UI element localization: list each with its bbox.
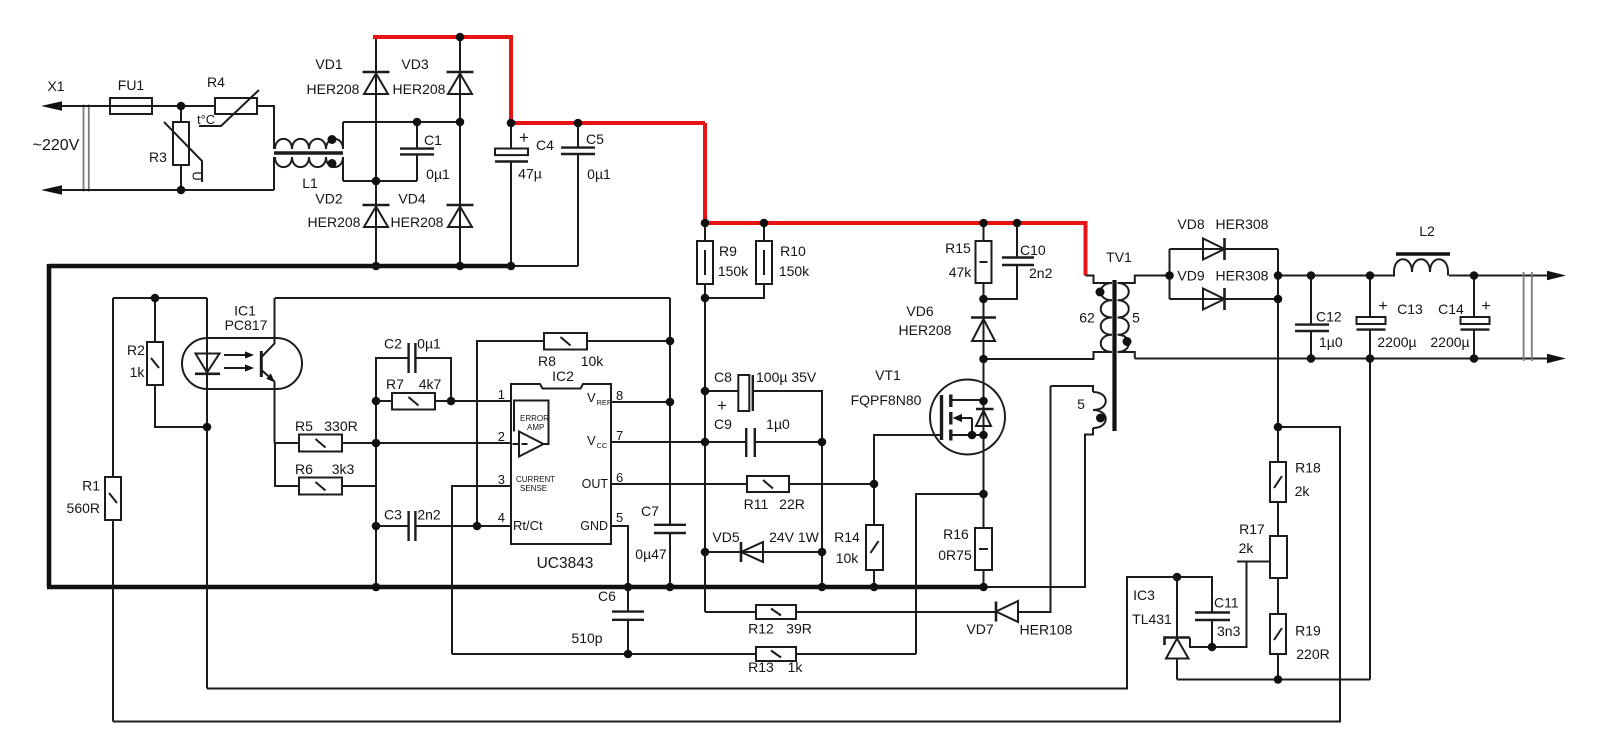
svg-text:VD5: VD5 <box>712 529 739 545</box>
capacitor C10 2n2 <box>984 223 1053 299</box>
svg-text:C2: C2 <box>384 336 402 352</box>
svg-text:C6: C6 <box>598 588 616 604</box>
svg-text:1: 1 <box>498 387 505 402</box>
svg-text:10k: 10k <box>581 353 605 369</box>
svg-text:R13: R13 <box>748 659 774 675</box>
capacitor C3 2n2 <box>376 507 511 542</box>
resistor R13 1k <box>748 647 803 675</box>
svg-text:2: 2 <box>498 429 505 444</box>
diode VD8 HER308 <box>1170 216 1279 260</box>
wire pin3 current sense <box>452 486 511 654</box>
diode VD6 HER208 <box>899 299 996 359</box>
svg-text:1µ0: 1µ0 <box>766 416 790 432</box>
svg-text:R8: R8 <box>538 353 556 369</box>
wire pin5 GND <box>611 526 628 587</box>
wire opto cathode to TL431 cathode <box>207 577 1177 689</box>
svg-text:UC3843: UC3843 <box>537 555 594 572</box>
svg-text:2200µ: 2200µ <box>1377 334 1416 350</box>
optocoupler IC1 PC817 body <box>182 303 302 390</box>
svg-text:1µ0: 1µ0 <box>1319 334 1343 350</box>
svg-text:V: V <box>587 390 596 405</box>
svg-text:VD9: VD9 <box>1177 268 1204 284</box>
wire primary ground bus bottom <box>47 585 984 590</box>
capacitor C5 <box>561 123 611 266</box>
svg-text:2n2: 2n2 <box>417 507 441 523</box>
svg-text:IC3: IC3 <box>1133 587 1155 603</box>
diode VD3 HER208 <box>393 56 474 97</box>
svg-text:VD4: VD4 <box>398 191 425 207</box>
TV1 aux winding 5 <box>984 386 1106 587</box>
connector X1 double lines <box>84 105 89 192</box>
svg-text:VD1: VD1 <box>315 56 342 72</box>
svg-text:HER208: HER208 <box>899 322 952 338</box>
thermistor R4 <box>197 74 259 127</box>
svg-text:FU1: FU1 <box>118 77 145 93</box>
wire R4 to L1 <box>257 106 274 149</box>
svg-text:1k: 1k <box>130 364 146 380</box>
svg-text:AMP: AMP <box>527 423 544 432</box>
diode VD2 HER208 <box>308 191 390 231</box>
svg-text:~220V: ~220V <box>33 137 80 154</box>
wire primary ground bus left vertical <box>47 264 52 587</box>
svg-text:R10: R10 <box>780 243 806 259</box>
svg-text:7: 7 <box>616 428 623 443</box>
resistor R8 10k <box>477 333 670 526</box>
svg-text:10k: 10k <box>836 550 860 566</box>
resistor R18 2k <box>1270 460 1321 503</box>
LED of IC1 <box>195 354 220 374</box>
svg-text:R16: R16 <box>943 526 969 542</box>
wire secondary to rectifier <box>1169 249 1171 299</box>
resistor R12 39R <box>705 605 996 637</box>
capacitor C7 0u47 <box>635 503 686 587</box>
resistor R16 0R75 <box>938 494 992 587</box>
svg-text:L2: L2 <box>1419 223 1435 239</box>
wire primary ground bus top <box>49 264 578 269</box>
svg-text:R1: R1 <box>82 478 100 494</box>
resistor R6 3k3 <box>275 443 376 495</box>
wire current sense row <box>452 653 916 655</box>
wire R17 tap to TL431 ref <box>1190 562 1270 648</box>
wire TL431 anode row <box>1177 679 1370 681</box>
svg-text:3: 3 <box>498 472 505 487</box>
svg-text:CURRENT: CURRENT <box>516 475 555 484</box>
svg-text:2n2: 2n2 <box>1029 265 1053 281</box>
svg-text:HER208: HER208 <box>307 81 360 97</box>
node X1 input arrows <box>33 78 80 195</box>
svg-text:330R: 330R <box>324 418 357 434</box>
diode VD4 HER208 <box>391 191 474 231</box>
wire R5 to pin2 <box>342 442 511 444</box>
TV1 secondary winding 5 <box>1118 276 1170 359</box>
svg-text:C9: C9 <box>714 416 732 432</box>
svg-text:0µ1: 0µ1 <box>417 336 441 352</box>
svg-text:C12: C12 <box>1316 309 1342 325</box>
fuse FU1 <box>110 77 152 114</box>
svg-text:3n3: 3n3 <box>1217 623 1241 639</box>
svg-text:C13: C13 <box>1397 301 1423 317</box>
svg-text:TL431: TL431 <box>1132 611 1172 627</box>
capacitor C14 2200u <box>1430 276 1490 359</box>
wire bridge right leg <box>459 37 461 266</box>
wire mains top <box>58 105 215 107</box>
svg-text:REF: REF <box>597 398 612 407</box>
svg-text:VD8: VD8 <box>1177 216 1204 232</box>
svg-text:47µ: 47µ <box>518 166 542 182</box>
svg-text:R15: R15 <box>945 240 971 256</box>
svg-text:R2: R2 <box>127 342 145 358</box>
resistor R7 4k7 <box>376 376 511 410</box>
svg-text:U: U <box>190 171 205 180</box>
wire C13 minus to anode row <box>1369 359 1371 680</box>
wire AC bottom row <box>343 180 417 182</box>
svg-text:22R: 22R <box>779 496 805 512</box>
shunt regulator IC3 TL431 <box>1132 577 1190 680</box>
svg-text:8: 8 <box>616 388 623 403</box>
svg-text:R14: R14 <box>834 529 860 545</box>
svg-text:47k: 47k <box>949 264 973 280</box>
svg-text:C11: C11 <box>1214 595 1239 611</box>
svg-text:PC817: PC817 <box>225 317 268 333</box>
wire output minus row <box>1135 358 1549 360</box>
svg-text:C8: C8 <box>714 369 732 385</box>
svg-text:5: 5 <box>616 510 623 525</box>
svg-text:L1: L1 <box>302 175 318 191</box>
svg-text:CC: CC <box>597 441 608 450</box>
capacitor C11 3n3 <box>1177 577 1241 647</box>
wire feedback vertical R7 C3 bus <box>375 401 377 587</box>
svg-text:R11: R11 <box>744 496 769 512</box>
svg-text:ERROR: ERROR <box>520 414 549 423</box>
varistor R3 <box>149 106 204 190</box>
inductor L1 common-mode choke <box>274 122 343 191</box>
wire red HV top <box>373 37 705 123</box>
wire AC top row <box>343 121 460 123</box>
svg-text:HER108: HER108 <box>1020 622 1073 638</box>
svg-text:100µ 35V: 100µ 35V <box>756 369 817 385</box>
svg-text:+: + <box>1378 298 1387 315</box>
svg-text:C4: C4 <box>536 137 554 153</box>
svg-text:R9: R9 <box>719 243 737 259</box>
wire rectifier to divider <box>1277 299 1279 462</box>
svg-text:C3: C3 <box>384 507 402 523</box>
capacitor C12 1u0 <box>1295 276 1343 359</box>
svg-text:C1: C1 <box>424 132 442 148</box>
svg-text:t°C: t°C <box>197 112 215 127</box>
svg-text:0µ1: 0µ1 <box>587 166 611 182</box>
svg-text:R6: R6 <box>295 461 313 477</box>
wire R1 R2 LED top row <box>113 297 207 299</box>
svg-text:R12: R12 <box>748 621 774 637</box>
connector output double lines <box>1524 272 1532 361</box>
svg-text:VD3: VD3 <box>401 56 428 72</box>
svg-text:0µ1: 0µ1 <box>426 166 450 182</box>
resistor R11 22R <box>611 476 874 512</box>
svg-text:VD7: VD7 <box>966 621 993 637</box>
svg-text:C10: C10 <box>1020 242 1046 258</box>
svg-text:220R: 220R <box>1296 646 1329 662</box>
wire mains bottom <box>58 189 274 191</box>
wire Vcc row collector to R9 R10 <box>275 297 670 299</box>
svg-text:62: 62 <box>1079 310 1095 326</box>
svg-text:R19: R19 <box>1295 623 1321 639</box>
svg-text:R17: R17 <box>1239 521 1265 537</box>
svg-text:R18: R18 <box>1295 460 1321 476</box>
wire pin8 Vref <box>611 401 670 403</box>
op-amp U IC2 UC3843 box <box>511 368 611 572</box>
svg-text:X1: X1 <box>47 78 64 94</box>
wire Vcc vertical R9 to VD5 <box>704 298 706 612</box>
svg-text:560R: 560R <box>67 500 100 516</box>
svg-text:HER208: HER208 <box>393 81 446 97</box>
resistor R2 1k <box>127 298 207 427</box>
svg-text:FQPF8N80: FQPF8N80 <box>851 392 922 408</box>
svg-text:+: + <box>1481 298 1490 315</box>
svg-text:V: V <box>587 433 596 448</box>
capacitor C9 1u0 <box>611 416 822 457</box>
resistor R19 220R <box>1270 614 1330 680</box>
svg-text:6: 6 <box>616 470 623 485</box>
diode VD7 HER108 <box>966 386 1072 638</box>
svg-text:TV1: TV1 <box>1106 249 1132 265</box>
diode VD9 HER308 <box>1170 268 1279 311</box>
zener VD5 24V 1W <box>705 529 822 562</box>
svg-text:2k: 2k <box>1295 483 1311 499</box>
capacitor C2 0u1 <box>376 336 451 402</box>
resistor R14 10k <box>834 484 883 587</box>
wire LED cathode vertical to TL431 row <box>206 298 208 689</box>
svg-text:R7: R7 <box>386 376 404 392</box>
resistor R1 560R <box>67 298 121 722</box>
resistor R9 150k <box>697 223 749 298</box>
svg-text:150k: 150k <box>779 263 810 279</box>
capacitor C1 <box>400 122 450 182</box>
inductor L2 <box>1394 223 1450 276</box>
transistor VT1 FQPF8N80 <box>851 359 1005 494</box>
capacitor C6 510p <box>571 587 644 654</box>
svg-text:2200µ: 2200µ <box>1430 334 1469 350</box>
IC2 pin labels <box>513 390 612 533</box>
wire output plus row <box>1278 275 1549 277</box>
wire red HV to R9 R15 TV1 <box>705 123 1086 276</box>
svg-text:VD2: VD2 <box>315 191 342 207</box>
svg-text:4: 4 <box>498 510 505 525</box>
transformer TV1 core <box>1106 249 1132 431</box>
svg-text:R3: R3 <box>149 149 167 165</box>
svg-text:5: 5 <box>1132 310 1140 326</box>
svg-text:4k7: 4k7 <box>419 376 442 392</box>
capacitor C4 electrolytic <box>495 123 554 266</box>
svg-text:24V 1W: 24V 1W <box>769 529 820 545</box>
wire drain node to TV1 primary <box>984 352 1113 359</box>
svg-text:5: 5 <box>1077 396 1085 412</box>
svg-text:HER208: HER208 <box>308 214 361 230</box>
svg-text:+: + <box>519 128 529 147</box>
svg-text:OUT: OUT <box>582 477 609 491</box>
svg-text:HER308: HER308 <box>1216 268 1269 284</box>
svg-text:2k: 2k <box>1239 540 1255 556</box>
svg-text:R4: R4 <box>207 74 225 90</box>
wire rectifier output vertical <box>1277 249 1279 299</box>
svg-text:+: + <box>717 396 727 415</box>
svg-text:IC2: IC2 <box>552 368 574 384</box>
diode VD1 HER208 <box>307 56 390 97</box>
svg-text:VT1: VT1 <box>875 367 901 383</box>
svg-text:C7: C7 <box>641 503 659 519</box>
svg-text:VD6: VD6 <box>906 303 933 319</box>
TV1 primary winding 62 <box>1079 276 1112 353</box>
capacitor C8 100u 35V <box>705 369 822 587</box>
svg-text:GND: GND <box>580 519 608 533</box>
svg-text:R5: R5 <box>295 418 313 434</box>
svg-text:0R75: 0R75 <box>938 547 972 563</box>
svg-text:0µ47: 0µ47 <box>635 546 667 562</box>
node output arrows <box>1547 271 1566 363</box>
svg-text:Rt/Ct: Rt/Ct <box>513 518 543 533</box>
svg-text:C14: C14 <box>1438 301 1464 317</box>
resistor R15 47k <box>945 223 991 299</box>
wire bridge left leg <box>375 37 377 266</box>
svg-text:HER308: HER308 <box>1216 216 1269 232</box>
svg-text:39R: 39R <box>786 621 812 637</box>
svg-text:510p: 510p <box>571 630 602 646</box>
IC2 pin numbers <box>498 387 623 525</box>
resistor R5 330R <box>275 418 358 452</box>
wire divider node to opto loop <box>113 427 1340 722</box>
IC1 light arrows <box>224 351 254 371</box>
svg-text:C5: C5 <box>586 131 604 147</box>
resistor R17 2k <box>1239 502 1287 614</box>
svg-text:3k3: 3k3 <box>332 461 355 477</box>
wire sense row up to R16 top <box>916 494 984 654</box>
IC2 error amp <box>513 401 550 457</box>
resistor R10 150k <box>705 223 810 298</box>
capacitor C13 2200u <box>1357 276 1424 359</box>
wire gate drive <box>874 435 940 484</box>
wire Vref vertical <box>669 298 671 525</box>
svg-text:1k: 1k <box>788 659 804 675</box>
svg-text:HER208: HER208 <box>391 214 444 230</box>
svg-text:SENSE: SENSE <box>520 484 547 493</box>
phototransistor of IC1 <box>261 298 275 443</box>
svg-text:150k: 150k <box>718 263 749 279</box>
